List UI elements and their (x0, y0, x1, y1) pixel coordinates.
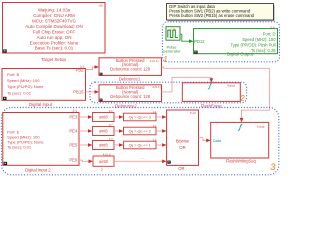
svg-text:4:{0.1}: 4:{0.1} (103, 152, 111, 156)
wire PE4 to uint8 row2 (79, 130, 89, 132)
svg-text:uint8: uint8 (99, 115, 109, 120)
svg-text:4:{0.1}: 4:{0.1} (152, 85, 161, 89)
wire Debounce2 to FlashErase trigger (162, 77, 212, 92)
wire uint8 row1 to shift row1 (114, 116, 120, 118)
marker Digital Input 2 library link (4, 162, 8, 165)
svg-text:Target Setup: Target Setup (41, 57, 66, 62)
svg-text:Qy = Qu << 1: Qy = Qu << 1 (129, 143, 151, 147)
svg-text:. . .: . . . (139, 155, 145, 160)
svg-text:MCU: STM32F407VG: MCU: STM32F407VG (32, 19, 77, 24)
svg-text:PE4: PE4 (69, 129, 78, 134)
svg-text:PD12: PD12 (194, 39, 205, 44)
svg-text:Auto Compile Download: ON: Auto Compile Download: ON (25, 24, 83, 29)
svg-text:PB15: PB15 (73, 89, 84, 94)
wire PE5 to uint8 row3 (79, 144, 89, 146)
marker Debounce2 library link (100, 99, 103, 102)
svg-text:Port: B: Port: B (7, 72, 20, 77)
svg-text:0.25: 0.25 (170, 28, 176, 32)
label Pulse Generator (162, 45, 181, 54)
svg-text:OR: OR (179, 145, 185, 150)
svg-text:Data: Data (213, 138, 222, 143)
block Digital Output (194, 29, 278, 54)
svg-text:0:1: 0:1 (80, 65, 85, 69)
svg-text:Auto run app: ON: Auto run app: ON (36, 35, 71, 40)
svg-text:2:2: 2:2 (153, 124, 157, 128)
svg-text:Debounce count: 128: Debounce count: 128 (110, 94, 150, 99)
wire shift row1 to OR (156, 116, 163, 118)
svg-text:2:3: 2:3 (109, 137, 113, 141)
svg-text:5:12: 5:12 (190, 111, 196, 115)
wire OR to FlashWritingSeq data (199, 138, 208, 141)
svg-text:Compiler: GNU ARM: Compiler: GNU ARM (33, 13, 75, 18)
marker Digital Input library link (3, 97, 7, 100)
wire PE6 to uint8 row4 (79, 160, 90, 161)
svg-text:Digital Output: Digital Output (227, 52, 254, 57)
block Debounce1 button pressed (99, 58, 162, 76)
block shift row2 (124, 127, 157, 135)
annotation note box (167, 4, 275, 22)
wire PB15 to Debounce2 (86, 91, 96, 93)
svg-text:Press button SW2 (PB15) as era: Press button SW2 (PB15) as erase command (169, 13, 254, 18)
block uint8 row2 (93, 127, 115, 136)
svg-text:PE5: PE5 (69, 143, 78, 148)
block shift row1 (124, 113, 157, 121)
svg-text:PE3: PE3 (69, 115, 78, 120)
svg-text:Ts (sec): 0.25: Ts (sec): 0.25 (251, 48, 276, 53)
svg-text:3: 3 (270, 162, 276, 172)
area 1 boundary (163, 22, 280, 62)
svg-text:uint8: uint8 (99, 143, 109, 148)
svg-text:0:1: 0:1 (109, 109, 113, 113)
svg-text:0:7: 0:7 (109, 123, 113, 127)
block Pulse Generator (166, 27, 180, 41)
svg-text:uint8: uint8 (99, 129, 109, 134)
svg-text:Execution Profiler: None: Execution Profiler: None (30, 40, 79, 45)
svg-text:Debounce1: Debounce1 (119, 76, 141, 81)
svg-text:Type (PU/PD): None: Type (PU/PD): None (7, 84, 44, 89)
block uint8 row1 (93, 113, 115, 122)
svg-text:0:6: 0:6 (271, 25, 276, 29)
svg-text:2:4: 2:4 (153, 110, 157, 114)
svg-text:Qy = Qu << 3: Qy = Qu << 3 (129, 115, 151, 119)
wire shift row3 to OR (156, 144, 163, 146)
block uint8 row4 (93, 156, 114, 166)
svg-text:00: 00 (99, 4, 103, 8)
svg-text:5:{pg}: 5:{pg} (257, 124, 265, 128)
svg-text:Full Chip Erase: OFF: Full Chip Erase: OFF (33, 29, 76, 34)
svg-text:Digital Input: Digital Input (29, 102, 53, 107)
svg-text:FlashWritingSeq: FlashWritingSeq (226, 159, 257, 164)
block uint8 row3 (93, 141, 115, 150)
svg-text:Ts (sec): 0.01: Ts (sec): 0.01 (7, 90, 32, 95)
wire uint8 row3 to shift row3 (114, 144, 120, 146)
marker Debounce1 library link (100, 73, 103, 76)
svg-text:4:{0.1}: 4:{0.1} (150, 59, 159, 63)
svg-text:PE6: PE6 (69, 158, 78, 163)
wire Debounce1 to FlashWritingSeq trigger (162, 67, 270, 119)
block Target Setup (3, 3, 106, 54)
block Bitwise OR (167, 110, 199, 165)
svg-text:1:0: 1:0 (153, 138, 157, 142)
svg-text:2:1: 2:1 (73, 109, 78, 113)
svg-text:Base Ts (sec): 0.01: Base Ts (sec): 0.01 (35, 46, 74, 51)
block Digital Input (2, 67, 86, 100)
block FlashErase subsystem (182, 83, 240, 102)
svg-text:Digital Input 2: Digital Input 2 (25, 168, 51, 173)
block Digital Input 2 (3, 113, 79, 166)
marker Bitwise OR library link (167, 161, 170, 164)
svg-text:Type (PP/OD): Push Pull: Type (PP/OD): Push Pull (230, 43, 275, 48)
wire PE3 to uint8 row1 (79, 116, 89, 118)
svg-text:Qy = Qu << 2: Qy = Qu << 2 (129, 129, 151, 133)
svg-text:Waijung: 14.03a: Waijung: 14.03a (38, 8, 71, 13)
wire uint8 row4 to OR (114, 160, 163, 162)
svg-text:Port: D: Port: D (263, 31, 276, 36)
wire shift row2 to OR (156, 130, 163, 132)
svg-text:Debounce count: 128: Debounce count: 128 (110, 66, 150, 71)
block Debounce2 button pressed (99, 85, 162, 102)
marker Target Setup library link (3, 49, 6, 52)
svg-text:Generator: Generator (162, 49, 181, 54)
wire PD12 pulse to digital output (180, 34, 190, 41)
svg-text:OR: OR (178, 166, 184, 171)
svg-text:uint8: uint8 (99, 159, 109, 164)
block FlashWritingSeq subsystem (211, 122, 269, 158)
svg-text:Speed (MHz): 100: Speed (MHz): 100 (242, 37, 276, 42)
svg-text:Speed (MHz): 100: Speed (MHz): 100 (7, 78, 40, 83)
svg-text:2: 2 (239, 93, 245, 103)
wire PB2 to Debounce1 (86, 67, 96, 70)
svg-text:1: 1 (163, 55, 167, 64)
area 3 boundary (2, 108, 279, 175)
block shift row3 (124, 141, 157, 149)
svg-text:Ts (sec): 0.01: Ts (sec): 0.01 (7, 144, 32, 149)
wire uint8 row2 to shift row2 (114, 130, 120, 132)
svg-text:2: 2 (101, 168, 103, 172)
marker Digital Output library link (194, 51, 197, 54)
svg-text:4:{pg}: 4:{pg} (227, 83, 235, 87)
svg-text:Bitwise: Bitwise (176, 138, 190, 143)
area 2 boundary (90, 82, 247, 103)
